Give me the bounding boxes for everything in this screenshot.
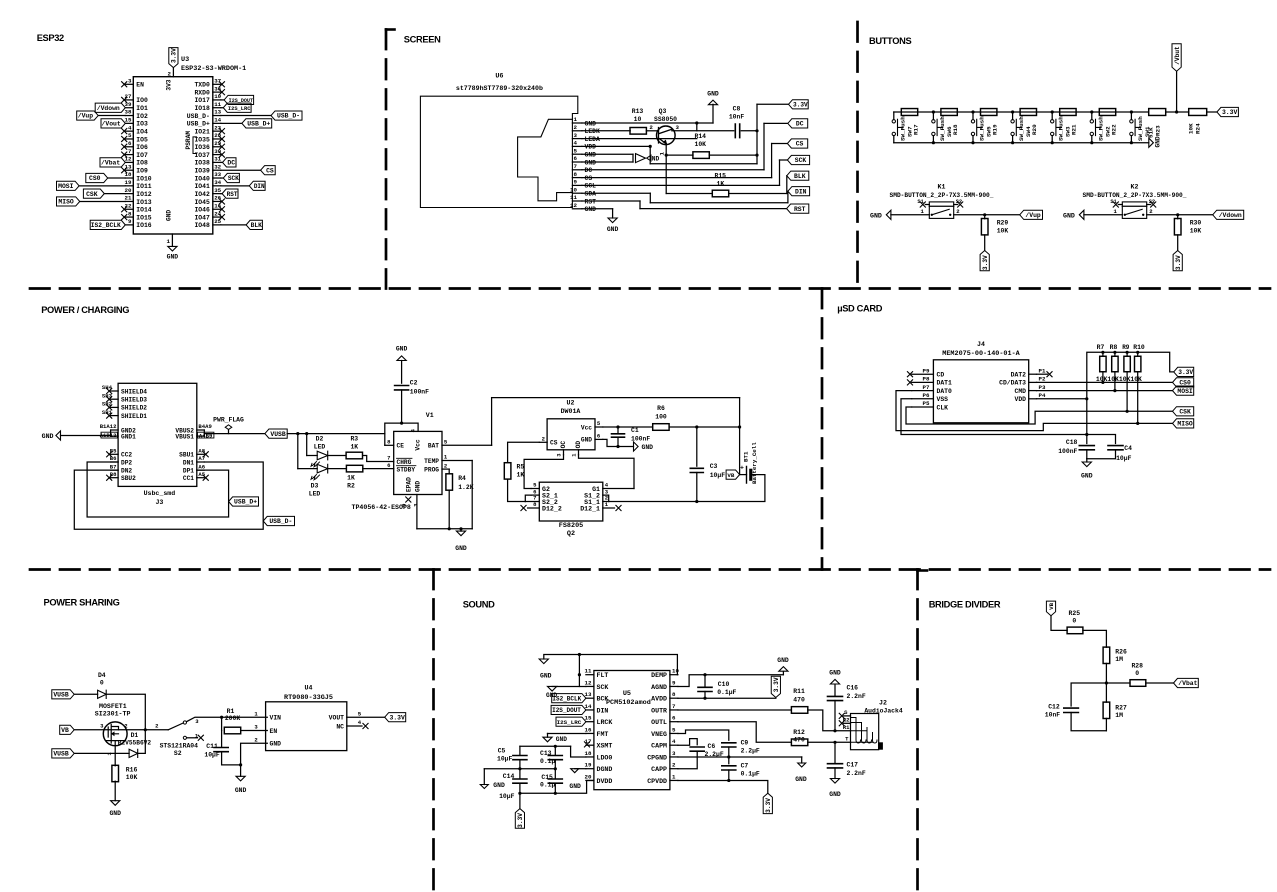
svg-text:/Vbat: /Vbat <box>1178 680 1197 687</box>
U3 pin 13 IO9 <box>125 169 133 171</box>
svg-text:TEMP: TEMP <box>424 458 439 465</box>
wire C8 to 3.3V node <box>741 130 757 132</box>
svg-text:IO38: IO38 <box>194 160 210 167</box>
ground pin 1 of U3 <box>171 234 173 246</box>
svg-text:6: 6 <box>574 155 578 162</box>
label CS <box>261 166 276 175</box>
svg-text:MOSI: MOSI <box>1177 388 1193 395</box>
wire Q3 emitter <box>665 144 667 194</box>
J3 pin A1B12 GND1 <box>111 435 119 437</box>
svg-text:CC2: CC2 <box>121 452 132 459</box>
svg-text:VDD: VDD <box>585 144 597 151</box>
capacitor C3 10uF <box>696 427 698 466</box>
svg-text:P9: P9 <box>923 367 930 374</box>
svg-text:U5: U5 <box>623 690 631 698</box>
svg-text:1: 1 <box>1113 208 1117 215</box>
wire MOSFET pin1 to R16 <box>114 746 116 766</box>
svg-text:2.2nF: 2.2nF <box>847 693 866 700</box>
svg-text:3: 3 <box>254 724 258 731</box>
resistor R30 10K <box>1177 215 1179 219</box>
label 3.3V buttons <box>1217 107 1239 116</box>
ground GND above Q3 <box>708 100 717 105</box>
power flag 3.3V on U3 pin 2 <box>169 48 178 68</box>
svg-text:BZV55B6V2: BZV55B6V2 <box>118 740 152 747</box>
svg-text:PSRAM: PSRAM <box>185 131 192 150</box>
wire D1 to drain node <box>138 730 146 754</box>
svg-text:3: 3 <box>557 454 563 457</box>
switch SW4 column wire <box>1012 112 1014 120</box>
svg-text:GND: GND <box>829 670 841 677</box>
svg-text:R8: R8 <box>1110 344 1118 351</box>
U3 pin 5 IO5 <box>125 138 133 140</box>
svg-text:BLK: BLK <box>794 173 806 180</box>
svg-text:IO5: IO5 <box>136 136 148 143</box>
wire R14 to 3.3V node <box>709 154 757 156</box>
wire USB_D- from pin 13 <box>221 115 271 117</box>
wire R2 to U1 STDBY <box>363 468 394 470</box>
wire VNEG to C9 <box>678 730 729 740</box>
svg-text:DN2: DN2 <box>121 467 132 474</box>
svg-text:DAT0: DAT0 <box>937 388 953 395</box>
resistor R11 470 <box>791 707 807 714</box>
wire VBUS to VUSB label <box>203 430 205 436</box>
svg-text:PWR_FLAG: PWR_FLAG <box>213 417 244 424</box>
svg-text:3: 3 <box>128 78 132 85</box>
svg-text:IO18: IO18 <box>194 105 210 112</box>
wire R6 to battery node <box>670 426 740 428</box>
wire VDD to C18 node <box>1037 398 1087 400</box>
svg-text:3.3V: 3.3V <box>517 813 524 828</box>
wire U6 pin5 GND <box>582 153 633 155</box>
U4 pin 4 NC <box>347 725 362 727</box>
svg-text:IS2_BCLK: IS2_BCLK <box>91 222 121 229</box>
capacitor C12 10nF <box>1064 708 1079 712</box>
wire D3 to R2 <box>328 468 347 470</box>
svg-text:R27: R27 <box>1115 705 1127 712</box>
svg-text:R1: R1 <box>227 708 235 715</box>
ground GND SCK <box>548 686 557 691</box>
svg-text:51K: 51K <box>1148 127 1155 138</box>
svg-text:C17: C17 <box>847 762 859 769</box>
svg-text:VB: VB <box>727 472 734 479</box>
label VB power <box>726 470 740 479</box>
U3 pin 18 IO10 <box>125 177 133 179</box>
svg-text:R21: R21 <box>1071 124 1078 135</box>
capacitor C1 100nF <box>617 427 619 434</box>
ground GND top left U5 <box>539 659 548 664</box>
svg-text:3.3V: 3.3V <box>1178 369 1193 376</box>
svg-text:SS8050: SS8050 <box>654 116 677 123</box>
svg-text:8: 8 <box>672 691 676 698</box>
switch S2 STS121RA04 <box>168 723 183 730</box>
svg-text:U6: U6 <box>495 73 503 81</box>
label USB_D+ <box>242 119 272 128</box>
svg-text:IO45: IO45 <box>194 199 210 206</box>
J4 pin P1 DAT2 <box>1029 373 1037 375</box>
svg-text:LDO0: LDO0 <box>597 754 613 761</box>
svg-text:C12: C12 <box>1048 704 1060 711</box>
wire SCK to GND <box>552 685 586 687</box>
U3 pin 38 IO2 <box>125 115 133 117</box>
svg-text:SI2301-TP: SI2301-TP <box>95 711 131 718</box>
switch SW2 column wire <box>1091 112 1093 120</box>
svg-text:SOUND: SOUND <box>463 600 495 610</box>
svg-text:IO47: IO47 <box>194 214 210 221</box>
svg-text:DC: DC <box>227 160 235 167</box>
resistor R26 1M <box>1103 647 1110 663</box>
J4 pin P7 DAT0 <box>912 390 934 392</box>
svg-text:B8: B8 <box>110 471 117 478</box>
label I2S_DOUT on IO17 <box>221 99 224 101</box>
svg-text:3.3V: 3.3V <box>390 714 406 721</box>
svg-text:8: 8 <box>574 171 578 178</box>
svg-text:R5: R5 <box>517 464 525 471</box>
wire D4 to drain node <box>106 694 145 730</box>
wire DEMP FLT SCK gnd loop <box>544 655 678 675</box>
svg-text:8: 8 <box>533 501 537 508</box>
svg-text:MOSI: MOSI <box>58 183 74 190</box>
battery BT1 Battery_Cell <box>740 474 747 476</box>
Q2 pins S2 bracket <box>525 495 531 501</box>
label DIN screen <box>788 187 810 196</box>
svg-text:IO41: IO41 <box>194 183 210 190</box>
svg-text:GND: GND <box>870 212 882 219</box>
svg-text:C16: C16 <box>847 685 859 692</box>
wire caps bottom rail to DVDD <box>520 780 594 793</box>
svg-text:MEM2075-00-140-01-A: MEM2075-00-140-01-A <box>942 350 1020 358</box>
power flag 3.3V caps <box>519 793 521 808</box>
IC Q2 FS8205 body <box>539 482 603 521</box>
Q2 pin 1 D12_1 <box>603 507 615 509</box>
U5 pin 5 VNEG <box>670 732 678 734</box>
wire MISO to IO13 <box>80 200 126 202</box>
J3 pin SH4 SHIELD4 <box>111 390 119 392</box>
IC U2 DW01A body <box>547 419 595 450</box>
svg-text:11: 11 <box>585 668 592 675</box>
wire node to C12 <box>1071 683 1106 706</box>
wire OUTR to R11 <box>678 709 791 711</box>
svg-text:DAT1: DAT1 <box>937 380 953 387</box>
U3 pin 23 IO21 <box>213 130 221 132</box>
switch SW1 column wire <box>1130 112 1132 120</box>
wire U6 pin11 RST staircase <box>582 200 640 202</box>
connector U6 ST7789 screen outline <box>420 96 577 207</box>
svg-text:B5: B5 <box>110 448 117 455</box>
svg-text:Battery_Cell: Battery_Cell <box>751 442 758 484</box>
J3 pin SH3 SHIELD3 <box>111 398 119 400</box>
U2 pin 6 GND <box>595 438 603 440</box>
svg-text:LED: LED <box>309 491 321 498</box>
svg-text:SCK: SCK <box>795 157 807 164</box>
label USB_D+ power <box>229 497 259 506</box>
svg-text:10K: 10K <box>126 774 138 781</box>
svg-text:4: 4 <box>672 738 676 745</box>
U3 pin 34 IO41 <box>213 185 221 187</box>
svg-text:VIN: VIN <box>270 715 282 722</box>
U5 pin 17 XSMT <box>586 744 594 746</box>
svg-text:14: 14 <box>214 117 221 124</box>
wire VB to R25 <box>1051 616 1067 631</box>
svg-text:I2S_DOUT: I2S_DOUT <box>552 707 581 714</box>
svg-text:MISO: MISO <box>58 199 74 206</box>
U2 pin 5 VCC <box>595 426 603 428</box>
wire U2 VCC to R6 <box>603 426 652 428</box>
svg-text:18: 18 <box>125 171 132 178</box>
svg-text:0.1µF: 0.1µF <box>717 689 736 696</box>
svg-text:Q2: Q2 <box>567 530 575 538</box>
svg-text:VUSB: VUSB <box>53 751 69 758</box>
section border horizontal top/middle <box>30 287 1270 290</box>
svg-text:POWER / CHARGING: POWER / CHARGING <box>41 305 129 315</box>
label DC screen <box>788 119 808 128</box>
resistor R24 10K <box>1189 109 1207 116</box>
IC U4 RT9080 body <box>266 702 347 751</box>
svg-text:31: 31 <box>214 156 221 163</box>
svg-text:100nF: 100nF <box>1058 448 1077 455</box>
wire buttons bottom rail <box>894 142 1149 144</box>
wire BLK from IO48 <box>221 224 246 226</box>
switch SW3 contacts <box>1051 120 1054 123</box>
ground GND DGND <box>575 768 586 770</box>
wire CD/DAT3 to CS0 <box>1037 381 1173 383</box>
label /Vdown on IO1 <box>95 103 125 112</box>
svg-text:34: 34 <box>214 179 221 186</box>
svg-text:IO7: IO7 <box>136 152 148 159</box>
svg-text:J4: J4 <box>977 341 985 348</box>
svg-text:K2: K2 <box>1131 184 1139 191</box>
svg-text:VBUS1: VBUS1 <box>175 433 194 440</box>
label /Vdown <box>1213 210 1244 219</box>
svg-text:FS8205: FS8205 <box>559 522 583 530</box>
svg-text:R9: R9 <box>1122 344 1130 351</box>
label USB_D- power <box>263 516 294 525</box>
transistor Q3 SS8050 <box>657 126 676 145</box>
label I2S_DOUT <box>551 705 586 714</box>
capacitor C10 0.1uF <box>704 675 706 688</box>
J4 pin P2 CD/DAT3 <box>1029 381 1037 383</box>
svg-text:19: 19 <box>585 762 592 769</box>
button K1 GND wire <box>891 214 929 216</box>
J4 pin P9 CD <box>912 373 934 375</box>
U6 pin 7 DC <box>572 169 582 171</box>
resistor R8 10K <box>1112 356 1118 372</box>
U3 pin 28 IO35 <box>213 138 221 140</box>
svg-text:S1: S1 <box>917 199 923 205</box>
svg-text:CMD: CMD <box>1014 388 1026 395</box>
capacitor C16 2.2nF <box>834 701 836 731</box>
LED D2 <box>306 434 308 456</box>
wire DP2 to USB_D+ loop <box>87 462 229 517</box>
resistor R21 button ladder <box>1060 109 1076 116</box>
label CSK sd <box>1173 407 1194 416</box>
label DC on IO38 <box>221 161 223 163</box>
svg-text:AVDD: AVDD <box>651 696 667 703</box>
svg-text:3.3V: 3.3V <box>793 102 808 109</box>
svg-text:/Vup: /Vup <box>78 113 94 120</box>
wire U6 pin9 SCL staircase <box>582 184 780 186</box>
wire DN2 to USB_D- loop <box>74 462 263 529</box>
svg-text:VNEG: VNEG <box>651 731 667 738</box>
U5 pin 3 CPGND <box>670 756 678 758</box>
svg-text:SHIELD3: SHIELD3 <box>121 397 147 404</box>
wire USB_D+ from pin 14 <box>221 122 242 124</box>
svg-text:R24: R24 <box>1195 123 1202 134</box>
svg-text:K1: K1 <box>938 184 946 191</box>
resistor R23 51K <box>1149 109 1166 116</box>
ground GND below U1 <box>460 529 462 531</box>
button K1 S1 S2 stubs <box>925 204 929 206</box>
svg-text:R10: R10 <box>1133 344 1145 351</box>
U3 pin 8 IO15 <box>125 216 133 218</box>
wire U6 pin4 VDD to 3.3V riser <box>582 145 650 147</box>
svg-text:C11: C11 <box>206 743 218 750</box>
svg-text:18: 18 <box>585 750 592 757</box>
wire R3 to U1 CHRG <box>363 456 394 462</box>
diode D4 0 <box>98 690 107 698</box>
wire AVDD to 3.3V flag <box>678 697 776 699</box>
U6 pin 5 GND <box>572 153 582 155</box>
svg-text:GND: GND <box>642 444 654 451</box>
svg-text:FMT: FMT <box>597 731 609 738</box>
svg-text:SH2: SH2 <box>102 401 113 408</box>
resistor R25 0 <box>1067 627 1083 634</box>
U3 pin 37 TXD0 <box>213 83 221 85</box>
label /Vup <box>1020 210 1043 219</box>
svg-text:470: 470 <box>793 736 805 743</box>
svg-text:GND: GND <box>581 437 592 444</box>
svg-text:SBU1: SBU1 <box>179 452 194 459</box>
svg-text:RST: RST <box>794 206 806 213</box>
svg-text:C18: C18 <box>1066 439 1078 446</box>
switch SW1 contacts <box>1130 120 1133 123</box>
svg-text:SCK: SCK <box>228 175 239 182</box>
svg-text:3: 3 <box>574 132 578 139</box>
ground GND sd <box>1086 459 1088 462</box>
wire OD to G1 <box>579 455 635 489</box>
wire U2 GND jog <box>603 439 634 446</box>
resistor R5 1K <box>504 463 511 479</box>
svg-text:3.3V: 3.3V <box>773 677 780 692</box>
svg-text:GND: GND <box>109 810 121 817</box>
switch SW7 contacts <box>892 120 895 123</box>
svg-text:C2: C2 <box>410 380 418 387</box>
svg-text:NC: NC <box>336 723 344 730</box>
svg-text:DP2: DP2 <box>121 459 132 466</box>
label USB_D- <box>271 111 302 120</box>
svg-text:10K10K10K10K: 10K10K10K10K <box>1096 376 1142 383</box>
svg-text:P8: P8 <box>923 376 930 383</box>
resistor R15 1K <box>712 190 728 197</box>
wire R24 to 3.3V <box>1207 111 1217 113</box>
wire U6 pin12 GND <box>582 208 613 210</box>
U5 pin 7 OUTR <box>670 709 678 711</box>
svg-text:J3: J3 <box>155 499 163 506</box>
svg-text:5: 5 <box>358 710 362 717</box>
svg-text:S2: S2 <box>956 199 962 205</box>
wire R5 to S2 <box>508 480 526 502</box>
label I2S_LRC <box>556 717 586 726</box>
U5 pin 12 SCK <box>586 685 594 687</box>
svg-text:10µF: 10µF <box>499 793 515 800</box>
U6 pin 3 LEDA <box>572 138 582 140</box>
ground GND pins 5-6 <box>632 154 634 162</box>
svg-text:2: 2 <box>444 462 448 469</box>
U6 pin 2 LEDK <box>572 130 582 132</box>
label /Vup on IO2 <box>77 111 99 120</box>
svg-text:CE: CE <box>397 443 405 450</box>
U5 pin 6 OUTL <box>670 721 678 723</box>
svg-text:CPVDD: CPVDD <box>647 778 667 785</box>
label /Vbat on IO8 <box>100 158 125 167</box>
svg-text:3: 3 <box>100 723 104 730</box>
button K2 output wire <box>1147 214 1213 216</box>
svg-text:21: 21 <box>125 195 132 202</box>
switch SW2 contacts <box>1090 120 1093 123</box>
Q2 pin 7 S2_2 <box>525 501 539 503</box>
label RST screen <box>787 204 809 213</box>
U1 pin 3 GND <box>416 495 418 529</box>
label BLK <box>246 220 262 229</box>
svg-text:2: 2 <box>124 723 128 730</box>
section border vertical ESP32/SCREEN <box>386 28 395 31</box>
U1 pin 1 TEMP <box>442 460 472 462</box>
svg-text:/Vbat: /Vbat <box>101 160 120 167</box>
svg-text:10µF: 10µF <box>497 755 513 762</box>
svg-text:16: 16 <box>585 726 592 733</box>
svg-text:CAPP: CAPP <box>651 766 667 773</box>
svg-text:SCK: SCK <box>597 684 609 691</box>
svg-text:C4: C4 <box>1124 445 1132 452</box>
svg-text:/Vout: /Vout <box>102 121 121 128</box>
J3 pin SH1 SHIELD1 <box>111 415 119 417</box>
wire emitter to R14 <box>666 154 693 156</box>
wire VB to MOSFET <box>74 729 168 731</box>
ground GND R16 <box>111 801 120 806</box>
wire CS0 to IO10 <box>108 177 126 179</box>
svg-text:35: 35 <box>214 187 221 194</box>
svg-text:7: 7 <box>128 148 132 155</box>
svg-text:USB_D-: USB_D- <box>269 518 292 525</box>
svg-text:GND: GND <box>556 736 567 743</box>
svg-text:RT9080-33GJ5: RT9080-33GJ5 <box>284 694 333 702</box>
svg-text:C6: C6 <box>708 743 716 750</box>
svg-text:B7: B7 <box>110 463 117 470</box>
svg-text:R13: R13 <box>632 108 644 115</box>
resistor R17 button ladder <box>901 109 917 116</box>
label VUSB power charging <box>265 429 287 438</box>
svg-text:BAT: BAT <box>428 443 439 450</box>
svg-text:6: 6 <box>387 462 391 469</box>
U3 pin 13 USB_D- <box>213 115 221 117</box>
label /Vout on IO3 <box>101 119 125 128</box>
label DIN <box>249 181 265 190</box>
U3 pin 3 EN <box>125 83 133 85</box>
svg-text:CC1: CC1 <box>183 475 194 482</box>
Q2 pins S1 bracket <box>603 495 609 501</box>
U6 screen inner outline <box>518 119 573 201</box>
svg-text:12: 12 <box>125 156 132 163</box>
svg-text:R30: R30 <box>1190 220 1202 227</box>
svg-text:SCREEN: SCREEN <box>404 35 441 45</box>
svg-text:10K: 10K <box>695 141 707 148</box>
resistor R22 button ladder <box>1099 109 1115 116</box>
svg-text:10µF: 10µF <box>1116 455 1132 462</box>
svg-text:R23: R23 <box>1155 125 1162 136</box>
U3 pin 29 IO36 <box>213 146 221 148</box>
svg-text:1: 1 <box>574 116 578 123</box>
U3 pin 35 IO42 <box>213 193 221 195</box>
label BLK screen <box>787 171 809 180</box>
